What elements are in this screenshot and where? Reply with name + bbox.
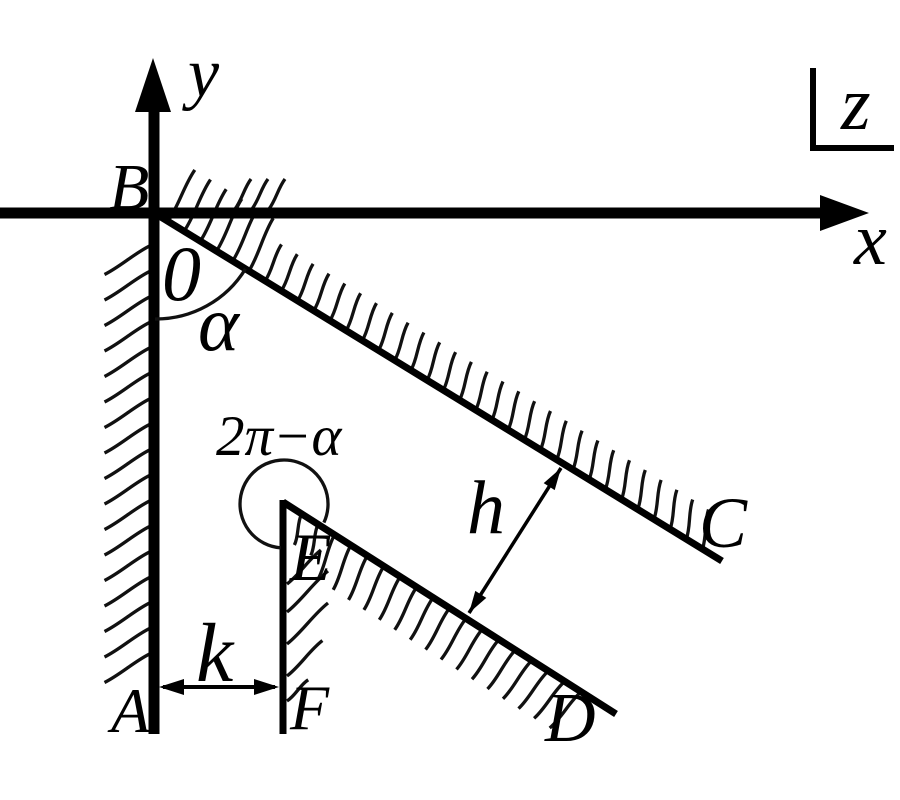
z-axis corner symbol	[813, 68, 894, 148]
dimension arrow h between BC and ED	[469, 468, 561, 613]
y-axis with arrowhead	[135, 58, 171, 734]
x-axis with arrowhead	[0, 195, 869, 231]
label x (axis)	[853, 199, 887, 281]
hatching on wall AB (left of y-axis)	[105, 246, 150, 683]
inclined line BC	[156, 214, 722, 561]
svg-text:x: x	[853, 199, 887, 281]
hatching above line BC	[168, 170, 709, 549]
label E	[289, 519, 332, 595]
svg-text:F: F	[289, 672, 330, 743]
svg-text:A: A	[107, 675, 151, 746]
label O (origin 0)	[162, 230, 201, 317]
svg-text:y: y	[182, 35, 220, 112]
label D	[544, 680, 596, 757]
svg-text:α: α	[198, 280, 241, 367]
svg-text:2π−α: 2π−α	[216, 405, 343, 468]
inclined line ED	[283, 502, 616, 714]
svg-text:k: k	[196, 607, 235, 700]
label alpha	[198, 280, 241, 367]
label y (axis)	[182, 35, 220, 112]
angle alpha arc at origin O	[155, 269, 246, 319]
label h	[467, 466, 505, 550]
dimension arrow k between y-axis and F	[159, 679, 279, 695]
svg-text:z: z	[840, 62, 871, 146]
label z (axis)	[840, 62, 871, 146]
svg-text:h: h	[467, 466, 505, 550]
svg-text:B: B	[109, 151, 149, 224]
label B	[109, 151, 149, 224]
svg-text:E: E	[289, 519, 332, 595]
hatching right of segment EF	[287, 550, 328, 701]
label 2pi-alpha	[216, 405, 343, 468]
svg-text:C: C	[699, 483, 748, 563]
label C	[699, 483, 748, 563]
label F	[289, 672, 330, 743]
hatching below line ED	[294, 514, 581, 728]
svg-text:0: 0	[162, 230, 201, 317]
vertical segment EF	[280, 500, 287, 734]
label A	[107, 675, 151, 746]
label k	[196, 607, 235, 700]
svg-text:D: D	[544, 680, 596, 757]
angle 2pi-alpha arc at E	[240, 460, 328, 548]
